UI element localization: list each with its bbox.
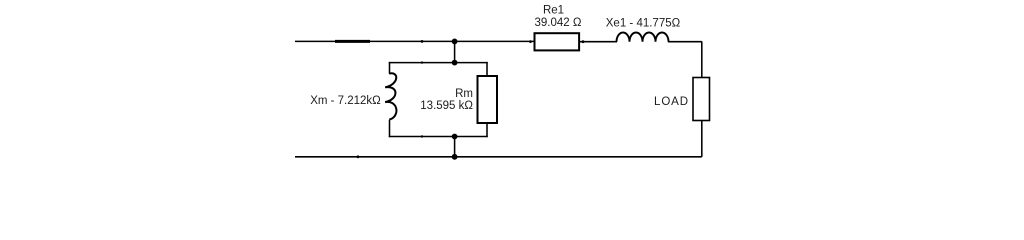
wire LOAD to bottom rail — [701, 121, 703, 157]
node tick on loop top edge — [421, 61, 423, 63]
wire loop right edge top — [486, 62, 488, 76]
node tick left of Re1 — [529, 40, 532, 43]
junction dot top rail — [452, 39, 458, 45]
node tick on loop bottom edge — [421, 135, 423, 137]
junction dot bottom rail — [452, 154, 458, 160]
svg-text:Re1: Re1 — [543, 5, 564, 17]
resistor Re1 box — [535, 33, 580, 50]
wire loop left edge top — [389, 62, 391, 74]
svg-text:LOAD: LOAD — [654, 96, 689, 108]
inductor Xm coil (3 humps, vertical) — [385, 73, 396, 119]
resistor Rm box — [478, 76, 498, 123]
svg-text:39.042 Ω: 39.042 Ω — [535, 17, 582, 29]
wire loop right edge bottom — [486, 123, 488, 137]
wire stub from loop bottom to bottom rail — [454, 137, 456, 157]
inductor Xe1 coil (4 humps, horizontal) — [617, 33, 669, 42]
svg-text:Xm - 7.212kΩ: Xm - 7.212kΩ — [310, 95, 381, 107]
node tick right of Re1 — [582, 40, 585, 43]
wire right branch down to LOAD — [701, 41, 703, 77]
node tick on bottom rail — [357, 155, 360, 158]
wire bottom rail — [295, 156, 702, 158]
wire top rail from Xe1 to right corner — [668, 41, 702, 43]
wire parallel loop bottom edge — [389, 136, 488, 138]
svg-text:13.595 kΩ: 13.595 kΩ — [420, 100, 473, 112]
junction dot loop bottom — [452, 134, 458, 140]
wire stub from top rail to parallel loop — [454, 41, 456, 62]
svg-text:Rm: Rm — [455, 88, 473, 100]
svg-text:Xe1 - 41.775Ω: Xe1 - 41.775Ω — [606, 18, 681, 30]
wire top rail left segment — [295, 40, 535, 42]
junction dot loop top — [452, 60, 458, 66]
wire loop left edge bottom — [389, 120, 391, 137]
node tick on top rail — [421, 40, 424, 43]
wire top rail thick overlap segment — [335, 40, 370, 43]
resistor LOAD box — [693, 78, 710, 121]
wire parallel loop top edge — [389, 62, 488, 64]
wire top rail between Re1 and Xe1 — [579, 41, 617, 43]
